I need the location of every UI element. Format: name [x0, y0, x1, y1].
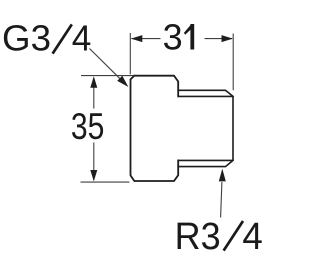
dim text 31 digit 1 stem: [190, 24, 194, 50]
leader line R3/4: [221, 182, 222, 218]
svg-text:35: 35: [71, 106, 105, 147]
label R3/4 slash: [224, 221, 243, 251]
leader arrow G3/4: [117, 76, 128, 87]
label G3/4 slash: [53, 24, 72, 53]
dim 31 line right segment: [205, 38, 233, 40]
dim 31 arrow left: [131, 35, 142, 42]
dim 35 arrow up: [90, 76, 97, 87]
svg-text:4: 4: [72, 17, 92, 58]
thread root line top: [178, 95, 233, 97]
dim 35 extension line bottom: [81, 181, 130, 183]
dim 31 extension line right: [232, 34, 234, 91]
svg-text:3: 3: [163, 17, 183, 58]
dim 35 line lower segment: [93, 143, 95, 181]
thread root line bottom: [178, 159, 233, 161]
thread crest line bottom: [178, 160, 233, 166]
dim 31 extension line left: [129, 33, 131, 74]
dim 31 arrow right: [222, 35, 233, 42]
leader line G3/4: [90, 49, 122, 80]
thread crest line top: [178, 90, 233, 96]
dim 35 extension line top: [81, 75, 135, 77]
dim 35 arrow down: [90, 170, 97, 181]
dim 31 line left segment: [132, 38, 161, 40]
pipe end face: [232, 96, 234, 160]
fitting body outline: [131, 76, 179, 181]
svg-text:4: 4: [242, 216, 262, 258]
svg-text:R3: R3: [175, 216, 221, 258]
dim text 31 digit 1 flag: [184, 24, 192, 35]
svg-text:G3: G3: [2, 17, 51, 58]
leader arrow R3/4: [219, 169, 226, 182]
dim 35 line upper segment: [93, 78, 95, 109]
